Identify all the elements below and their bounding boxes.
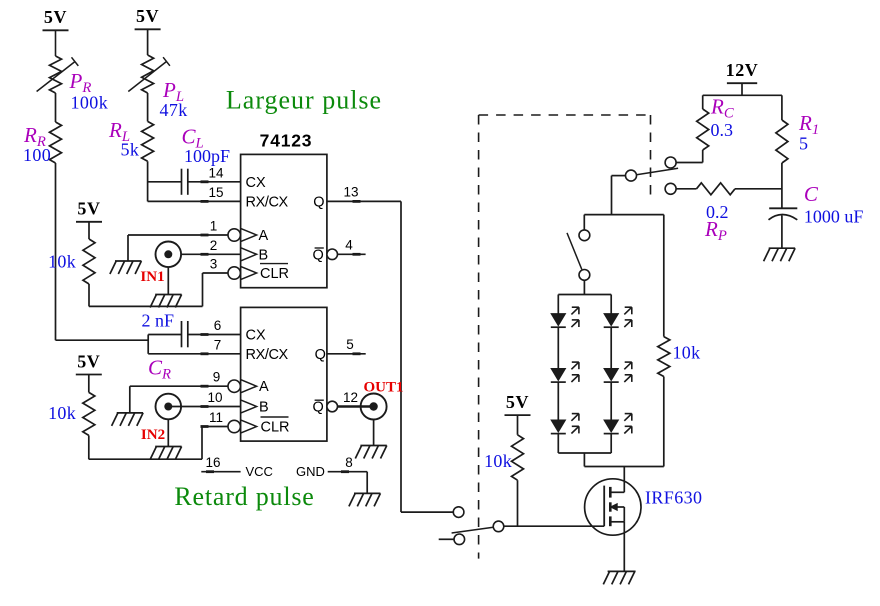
- svg-text:IN2: IN2: [141, 427, 165, 443]
- svg-text:Largeur pulse: Largeur pulse: [226, 85, 382, 114]
- svg-text:CX: CX: [246, 175, 266, 191]
- svg-text:GND: GND: [296, 464, 325, 479]
- svg-text:C: C: [804, 182, 819, 206]
- svg-text:7: 7: [214, 337, 222, 352]
- svg-text:RX/CX: RX/CX: [246, 194, 289, 210]
- svg-text:OUT1: OUT1: [363, 380, 403, 396]
- svg-text:13: 13: [343, 185, 358, 200]
- svg-text:5: 5: [346, 337, 354, 352]
- svg-text:CLR: CLR: [261, 420, 290, 436]
- svg-text:A: A: [259, 228, 269, 244]
- svg-text:5V: 5V: [44, 7, 67, 27]
- svg-text:100: 100: [23, 145, 51, 165]
- svg-text:10k: 10k: [673, 343, 701, 363]
- svg-text:12: 12: [343, 390, 358, 405]
- svg-text:14: 14: [208, 166, 224, 181]
- svg-text:5V: 5V: [136, 6, 159, 26]
- svg-text:100k: 100k: [71, 93, 109, 113]
- svg-text:47k: 47k: [160, 100, 188, 120]
- svg-text:10k: 10k: [48, 252, 76, 272]
- svg-text:1000 uF: 1000 uF: [804, 207, 864, 227]
- svg-text:16: 16: [205, 455, 220, 470]
- svg-text:5k: 5k: [121, 140, 140, 160]
- svg-text:9: 9: [213, 370, 221, 385]
- svg-text:Q: Q: [313, 400, 324, 416]
- svg-text:RX/CX: RX/CX: [246, 347, 289, 363]
- svg-text:6: 6: [214, 318, 222, 333]
- svg-text:2 nF: 2 nF: [142, 311, 175, 331]
- svg-text:4: 4: [345, 238, 353, 253]
- svg-text:5V: 5V: [506, 392, 529, 412]
- svg-text:CX: CX: [246, 328, 266, 344]
- svg-text:12V: 12V: [726, 60, 759, 80]
- svg-text:5V: 5V: [77, 351, 100, 371]
- svg-text:Q: Q: [313, 194, 324, 210]
- svg-text:Q: Q: [315, 347, 326, 363]
- svg-text:10k: 10k: [48, 403, 76, 423]
- svg-text:Retard pulse: Retard pulse: [174, 482, 314, 511]
- svg-text:11: 11: [209, 410, 223, 425]
- svg-text:2: 2: [210, 238, 218, 253]
- svg-text:1: 1: [210, 219, 218, 234]
- svg-text:VCC: VCC: [246, 464, 273, 479]
- svg-text:CLR: CLR: [260, 266, 289, 282]
- svg-text:8: 8: [345, 455, 353, 470]
- svg-text:B: B: [259, 400, 269, 416]
- svg-text:5V: 5V: [77, 199, 100, 219]
- svg-text:3: 3: [210, 257, 218, 272]
- svg-text:15: 15: [208, 185, 223, 200]
- svg-text:10k: 10k: [484, 451, 512, 471]
- svg-text:Q: Q: [313, 247, 324, 263]
- svg-text:IRF630: IRF630: [645, 488, 702, 508]
- svg-text:A: A: [259, 379, 269, 395]
- svg-text:5: 5: [799, 134, 808, 154]
- svg-text:IN1: IN1: [140, 269, 164, 285]
- svg-text:10: 10: [207, 390, 222, 405]
- svg-text:100pF: 100pF: [184, 146, 230, 166]
- svg-text:74123: 74123: [260, 131, 313, 151]
- svg-text:B: B: [259, 247, 269, 263]
- svg-text:0.3: 0.3: [711, 120, 734, 140]
